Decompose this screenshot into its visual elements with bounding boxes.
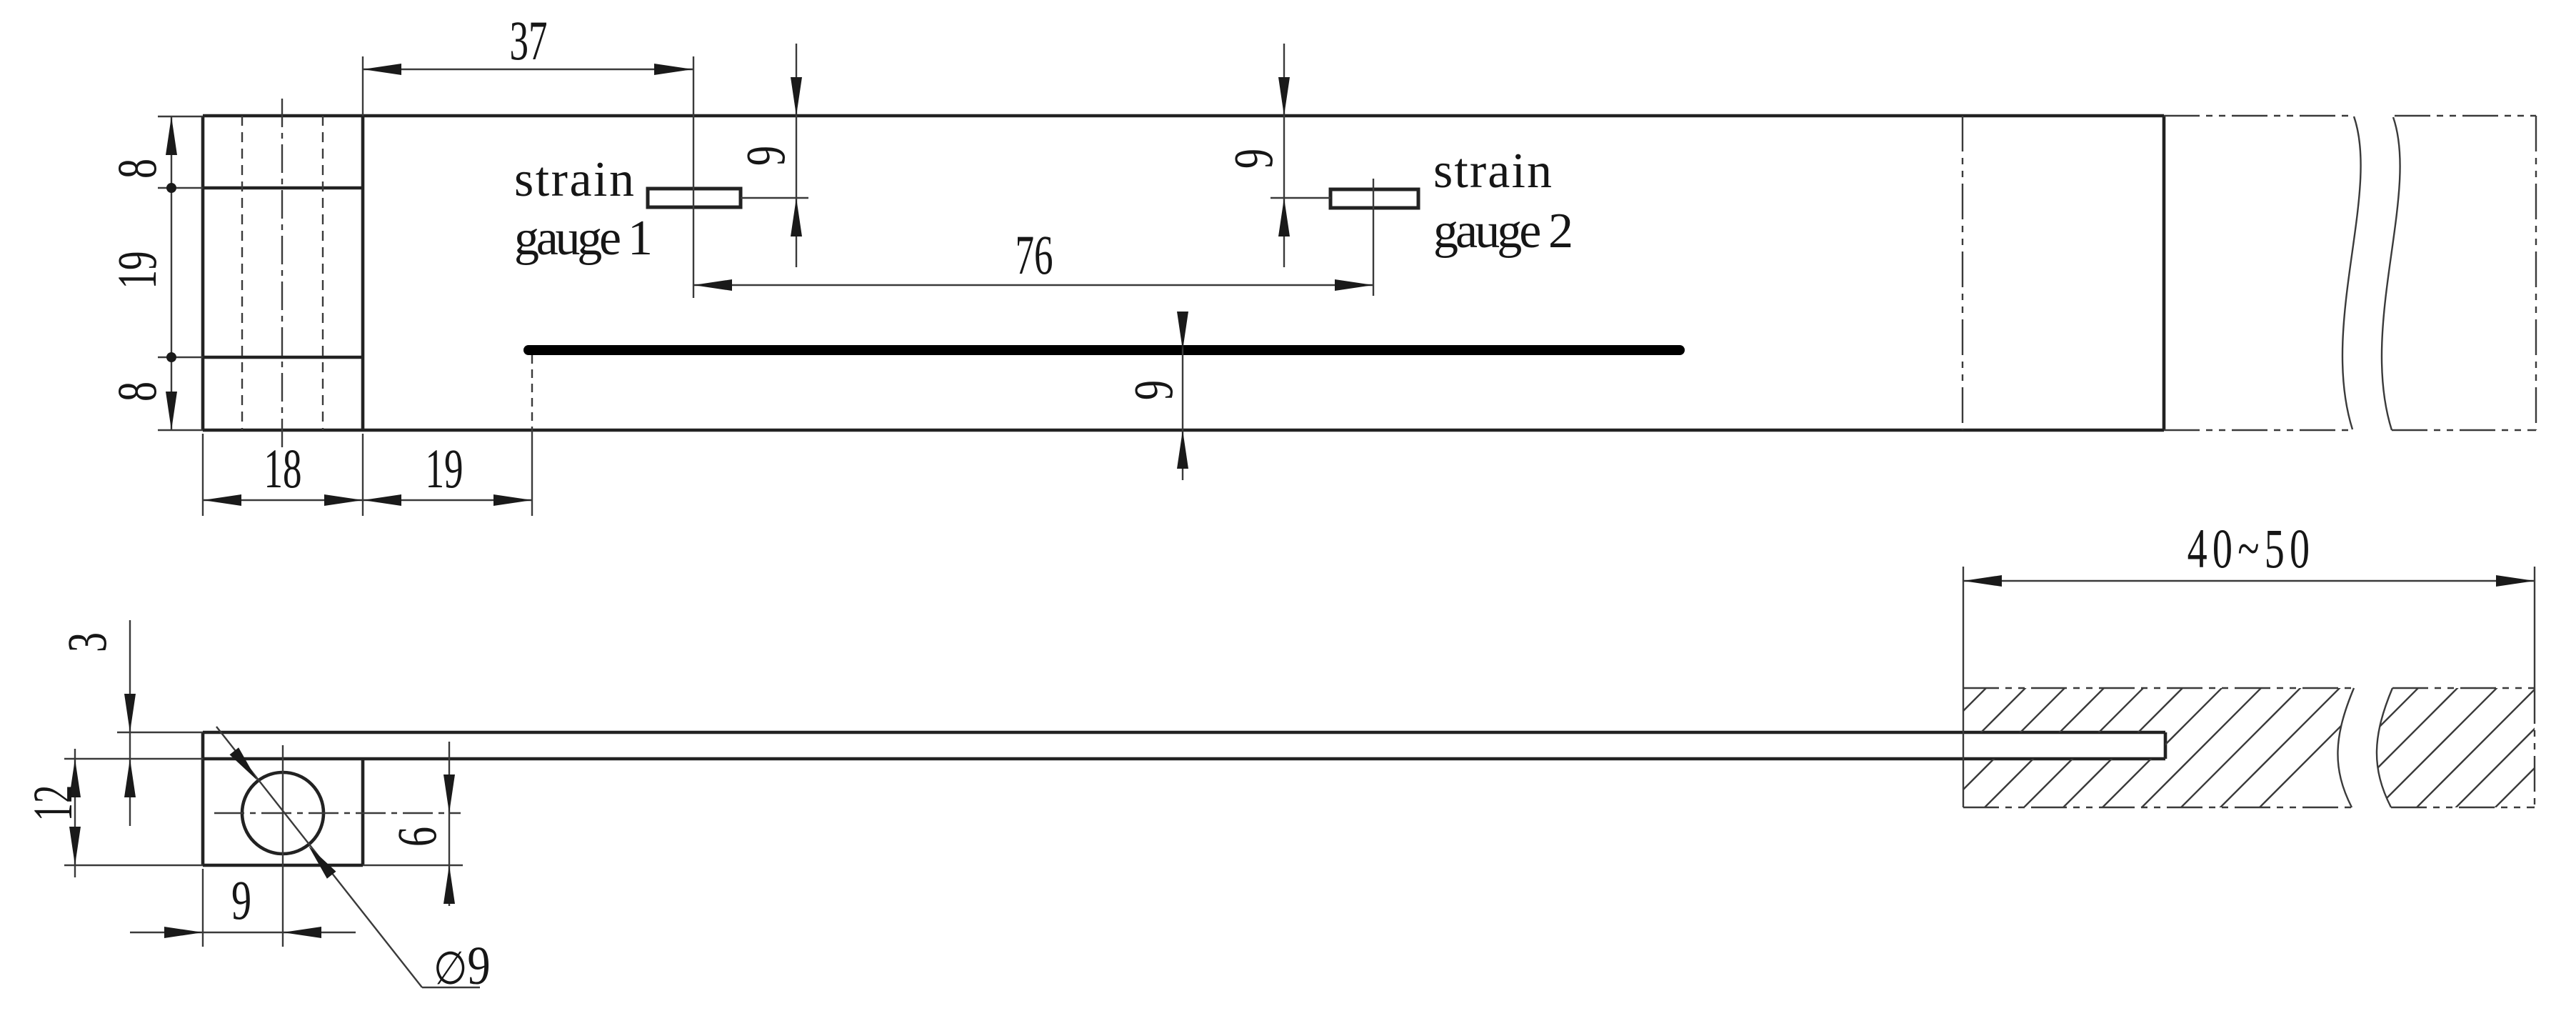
arrow right of 18	[324, 494, 363, 506]
phantom right end vertical	[2535, 116, 2537, 430]
end block left edge	[201, 732, 205, 865]
dim 3 line	[129, 620, 131, 826]
label 8 (bottom)	[106, 382, 168, 402]
break wavy line 2	[2382, 117, 2400, 430]
svg-text:19: 19	[107, 251, 168, 289]
dim 9 gauge2 line	[1283, 44, 1285, 267]
label 6	[386, 827, 448, 847]
arrow down to plate top	[124, 694, 136, 732]
end block bottom edge	[203, 864, 363, 867]
svg-text:9: 9	[231, 869, 251, 931]
dim 9 (bottom) extension	[202, 869, 204, 947]
break wavy line 1	[2342, 116, 2361, 429]
left dimension 8/19/8 extension lines	[158, 116, 203, 117]
block centerline (dash-dot)	[281, 99, 283, 451]
grip block 1 top phantom edge	[1963, 687, 2354, 689]
svg-text:8: 8	[106, 159, 168, 179]
dim 6 line	[448, 742, 450, 906]
dim 18/19 extension lines	[202, 434, 204, 516]
phi9 leader tail	[422, 987, 480, 988]
svg-text:gauge 2: gauge 2	[1433, 204, 1573, 259]
svg-text:9: 9	[1222, 149, 1284, 169]
label 9 crack	[1122, 380, 1184, 400]
crack tip extension dashed	[531, 355, 533, 430]
specimen top edge	[203, 114, 2164, 118]
dim 12 line	[74, 749, 76, 877]
grip block 1 bottom phantom edge	[1963, 807, 2352, 808]
dim 9 line	[130, 932, 356, 933]
phantom bottom edge continuation	[2164, 429, 2351, 431]
dim 6 extension	[363, 865, 463, 866]
label 9 (bottom)	[231, 869, 251, 931]
grip block 1 left edge	[1963, 688, 1964, 807]
arrow up to gauge center (g2)	[1278, 198, 1290, 236]
svg-text:76: 76	[1015, 225, 1053, 286]
dim 9 below crack line	[1182, 312, 1183, 480]
dim 37 extension line	[362, 56, 364, 116]
arrow right of 19	[493, 494, 532, 506]
dim 40~50 left extension	[1963, 567, 1964, 688]
svg-text:strain: strain	[1433, 144, 1552, 199]
arrow left of 18	[203, 494, 241, 506]
arrow left to hole center	[283, 927, 321, 938]
label 19 (left)	[107, 251, 168, 289]
block division line upper (8/19)	[203, 186, 363, 190]
phi9 leader diagonal	[216, 727, 422, 987]
svg-text:37: 37	[509, 11, 547, 71]
arrow right of 76	[1335, 279, 1373, 291]
label 12	[22, 785, 84, 822]
left dimension line 8/19/8	[171, 116, 172, 430]
hole vertical centerline	[282, 745, 284, 947]
label 8 (top)	[106, 159, 168, 179]
strain gauge 1 centerline extension	[693, 56, 694, 298]
end block right edge	[361, 759, 365, 865]
svg-text:9: 9	[1122, 380, 1184, 400]
arrow down to crack	[1177, 312, 1188, 350]
svg-text:∅9: ∅9	[433, 936, 491, 996]
phantom bottom edge right	[2392, 429, 2536, 431]
hole circle	[242, 772, 324, 854]
specimen bottom edge	[203, 429, 2164, 432]
arrow up (12 top)	[69, 759, 81, 797]
label 76	[1015, 225, 1053, 286]
extension line below crack start	[531, 430, 533, 516]
dim 9 gauge1 line	[796, 44, 797, 267]
arrow up to plate bottom	[124, 759, 136, 797]
dim line 37	[363, 69, 693, 70]
svg-text:12: 12	[22, 785, 84, 822]
dot at 8/19	[166, 183, 176, 193]
svg-text:40~50: 40~50	[2187, 517, 2315, 579]
svg-text:6: 6	[386, 827, 448, 847]
strain gauge 2 rectangle	[1330, 189, 1418, 208]
label 3	[56, 632, 118, 652]
strain gauge 1 rectangle	[648, 189, 741, 207]
arrow right of 37	[654, 64, 693, 75]
svg-text:19: 19	[425, 439, 463, 499]
phantom section line vertical	[1962, 116, 1963, 430]
phi9 arrow upper	[230, 747, 258, 780]
svg-text:9: 9	[734, 146, 796, 166]
dim 40~50 right extension	[2534, 567, 2535, 688]
label 9 gauge2	[1222, 149, 1284, 169]
svg-text:18: 18	[264, 439, 301, 499]
label 9 gauge1	[734, 146, 796, 166]
grip block 2 top phantom edge	[2392, 687, 2535, 689]
phantom top edge right	[2395, 115, 2536, 116]
arrow up to bottom edge	[1177, 430, 1188, 469]
arrow down to top edge	[791, 77, 802, 116]
dim line 19	[363, 499, 532, 501]
arrow down to centerline	[443, 775, 455, 813]
label 18	[264, 439, 301, 499]
hidden hole edge left (dashed)	[241, 116, 243, 430]
label 40~50	[2187, 517, 2315, 579]
strain gauge 2 centerline extension	[1373, 179, 1374, 296]
hidden hole edge right (dashed)	[322, 116, 324, 430]
label 37	[509, 11, 547, 71]
phantom top edge continuation	[2164, 115, 2354, 116]
arrow up to block bottom	[443, 865, 455, 904]
dim line 40~50	[1963, 580, 2535, 582]
grip block 2 right phantom edge	[2534, 688, 2535, 807]
plate top line	[203, 731, 2165, 734]
label 19 (bottom)	[425, 439, 463, 499]
gauge 1 leader line	[741, 197, 808, 199]
label phi9	[433, 936, 491, 996]
end block right edge	[361, 116, 365, 430]
dim line 76	[693, 284, 1373, 286]
svg-text:8: 8	[106, 382, 168, 402]
gauge 2 leader line	[1271, 197, 1330, 199]
arrow down to top edge (g2)	[1278, 77, 1290, 116]
plate right end edge	[2164, 732, 2167, 759]
grip edge solid vertical	[2162, 116, 2166, 430]
specimen left edge	[201, 116, 205, 430]
svg-text:gauge 1: gauge 1	[514, 211, 653, 266]
grip block 1 wavy right edge	[2337, 688, 2354, 807]
dim 12 extensions	[64, 758, 203, 759]
arrow left of 76	[693, 279, 732, 291]
grip block 2 wavy left edge	[2377, 688, 2392, 807]
hatch lines block 2	[2292, 679, 2576, 815]
arrow up to gauge center	[791, 198, 802, 236]
svg-text:3: 3	[56, 632, 118, 652]
arrow left of 40~50	[1963, 575, 2002, 587]
arrow down (bottom 8)	[166, 392, 177, 430]
arrow left of 37	[363, 64, 401, 75]
dim 3 top extension	[117, 732, 203, 733]
plate bottom line	[203, 757, 2165, 761]
svg-text:strain: strain	[514, 152, 634, 207]
arrow down (12 bottom)	[69, 827, 81, 865]
hole horizontal centerline	[214, 812, 461, 814]
dot at 19/8	[166, 352, 176, 362]
arrow right of 40~50	[2496, 575, 2535, 587]
crack (thick black line)	[528, 345, 1680, 355]
block division line lower (19/8)	[203, 356, 363, 359]
dim line 18	[203, 499, 363, 501]
grip block 2 bottom phantom edge	[2391, 807, 2535, 808]
arrow up (top of 8)	[166, 116, 177, 155]
arrow left of 19	[363, 494, 401, 506]
arrow right to block edge	[164, 927, 203, 938]
phi9 arrow lower	[309, 846, 336, 879]
hatch lines block 1	[1820, 679, 2388, 815]
